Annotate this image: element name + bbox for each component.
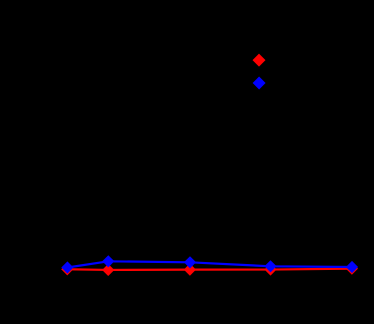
legend red marker [253, 54, 266, 67]
blue data marker 5 [346, 261, 358, 273]
blue data marker 1 [61, 261, 73, 273]
red data marker 2 [102, 264, 114, 276]
red data marker 4 [264, 263, 276, 275]
red data marker 1 [61, 263, 73, 275]
blue data marker 2 [102, 255, 114, 267]
blue series line [67, 261, 352, 267]
red data marker 3 [184, 264, 196, 276]
blue data marker 4 [264, 260, 276, 272]
red series line [67, 269, 352, 270]
red data marker 5 [346, 263, 358, 275]
blue data marker 3 [184, 256, 196, 268]
legend blue marker [253, 77, 266, 90]
